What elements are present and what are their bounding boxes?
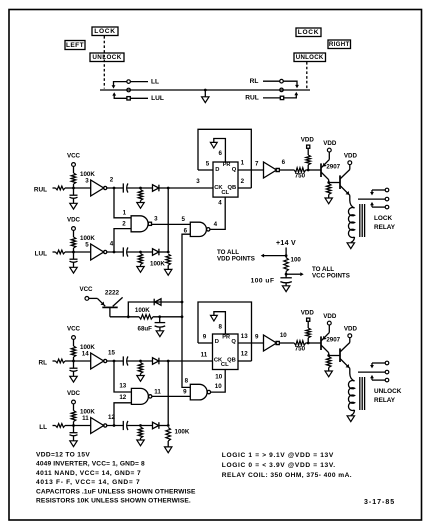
lock relay label bbox=[374, 215, 396, 231]
junction (RUL input) bbox=[72, 187, 75, 190]
ground (lock coil) bbox=[347, 243, 354, 249]
wire (coil to ground lock) bbox=[351, 237, 355, 243]
flip-flop U1 4013 body bbox=[213, 162, 238, 197]
power VDC (LUL pull-up) bbox=[67, 217, 81, 231]
svg-text:6: 6 bbox=[218, 150, 222, 157]
wire (RUL to inverter) bbox=[74, 187, 91, 189]
NAND gate 4011 (pins 13,12 -> 11) bbox=[131, 388, 152, 404]
svg-text:3-17-85: 3-17-85 bbox=[364, 499, 395, 506]
svg-text:9: 9 bbox=[255, 334, 259, 341]
svg-text:2: 2 bbox=[122, 221, 126, 228]
svg-text:2: 2 bbox=[110, 177, 114, 184]
relay arm arrow top (unlock) bbox=[370, 363, 374, 368]
capacitor 100uF (power) bbox=[280, 278, 291, 286]
wire (emitter to coil unlock) bbox=[350, 368, 355, 381]
svg-text:6: 6 bbox=[282, 159, 286, 166]
inverter 4049 pins 5-4 (LUL) bbox=[91, 244, 107, 260]
relay coil (unlock) bbox=[348, 381, 354, 411]
transistor 2222 base bar bbox=[102, 306, 117, 308]
svg-text:D: D bbox=[215, 339, 219, 345]
value 68uF label bbox=[138, 326, 153, 333]
junction (VCC node) bbox=[285, 273, 288, 276]
pin 5 label (U1 D) bbox=[206, 161, 210, 168]
switch arm arrow (RUL) bbox=[284, 92, 299, 98]
wire (+14V down) bbox=[285, 248, 287, 258]
svg-text:CAPACITORS .1uF UNLESS SHOWN O: CAPACITORS .1uF UNLESS SHOWN OTHERWISE bbox=[36, 488, 196, 495]
svg-text:UNLOCK: UNLOCK bbox=[374, 388, 402, 395]
wire (diode out LUL) bbox=[159, 251, 168, 253]
svg-text:VDD: VDD bbox=[323, 140, 337, 147]
resistor to ground (lock base bleed) bbox=[325, 184, 332, 204]
wire (diode out LL) bbox=[159, 425, 168, 427]
capacitor .1uF series (LL) bbox=[123, 421, 128, 430]
U2 label D bbox=[215, 339, 219, 345]
svg-text:VDD POINTS: VDD POINTS bbox=[217, 255, 255, 262]
pin 13 label bbox=[119, 383, 126, 390]
switch contact RUL bbox=[263, 96, 284, 99]
node LUL input label bbox=[35, 251, 48, 258]
power VDC (LL pull-up) bbox=[67, 390, 81, 404]
svg-text:VDD: VDD bbox=[344, 153, 358, 160]
value 100K (LUL) bbox=[80, 235, 95, 242]
resistor 100K (POR) bbox=[139, 315, 153, 320]
U2 label CL bbox=[221, 362, 229, 368]
wire (emitter to VDD unlock) bbox=[328, 325, 330, 333]
value 750 (unlock) bbox=[295, 346, 306, 353]
svg-text:RUL: RUL bbox=[245, 94, 259, 101]
pin 10 label (NAND out) bbox=[215, 383, 222, 390]
relay contact top (lock) bbox=[372, 188, 389, 192]
junction (inverter 4 output) bbox=[113, 251, 116, 254]
transistor NPN emitter (unlock) bbox=[340, 359, 350, 369]
resistor 100K (LUL pull-up) bbox=[71, 237, 76, 252]
node RL input label bbox=[38, 360, 47, 367]
wire U2 PR to ground bbox=[211, 312, 226, 334]
resistor to ground (LL pulse) bbox=[137, 427, 144, 446]
svg-text:LOGIC 0 = < 3.9V @VDD = 13V.: LOGIC 0 = < 3.9V @VDD = 13V. bbox=[222, 462, 336, 469]
wire (cap to diode LUL) bbox=[127, 251, 152, 253]
dashed mechanical link (right switch) bbox=[306, 62, 308, 89]
date label bbox=[364, 499, 395, 506]
svg-text:5: 5 bbox=[181, 216, 185, 223]
svg-text:RIGHT: RIGHT bbox=[329, 41, 350, 48]
wire (2222 base down) bbox=[109, 307, 111, 316]
capacitor .1uF series (RL) bbox=[123, 356, 128, 365]
svg-text:2: 2 bbox=[241, 178, 245, 185]
switch contact LUL bbox=[127, 97, 148, 100]
svg-text:VCC POINTS: VCC POINTS bbox=[312, 273, 350, 280]
wire (inverter 2 output) bbox=[107, 187, 123, 189]
pin 14 label bbox=[82, 351, 89, 358]
svg-text:LOGIC 1 = > 9.1V @VDD = 13V: LOGIC 1 = > 9.1V @VDD = 13V bbox=[222, 452, 334, 459]
capacitor .1uF to ground (LUL input) bbox=[70, 252, 78, 273]
junction (POR bus diode) bbox=[181, 301, 184, 304]
wire NAND4out to FF1 CL bbox=[210, 197, 225, 229]
note logic line 1 bbox=[222, 452, 334, 459]
resistor pull-up to VDD (unlock) bbox=[306, 321, 311, 343]
svg-text:LEFT: LEFT bbox=[66, 42, 84, 49]
svg-text:CL: CL bbox=[221, 362, 229, 368]
svg-text:LOCK: LOCK bbox=[94, 28, 115, 35]
transistor 2222 emitter bbox=[97, 298, 105, 306]
relay coil (lock) bbox=[348, 208, 354, 238]
unlock relay label bbox=[374, 388, 402, 404]
junction (inverter 15 output) bbox=[113, 360, 116, 363]
svg-text:13: 13 bbox=[119, 383, 126, 390]
note logic line 3 bbox=[222, 472, 352, 479]
value 750 (lock) bbox=[295, 173, 306, 180]
wire inverter4 to NAND pin2 bbox=[114, 229, 131, 252]
svg-text:10: 10 bbox=[215, 373, 222, 380]
value 100K (POR) bbox=[135, 307, 150, 314]
svg-text:+14 V: +14 V bbox=[276, 240, 296, 247]
node RUL input label bbox=[34, 187, 47, 194]
ground (unlock coil) bbox=[347, 416, 354, 422]
relay arm arrow top (lock) bbox=[370, 190, 374, 195]
NAND gate 4011 (pins 1,2 -> 3) bbox=[131, 216, 151, 232]
svg-text:4011 NAND, VCC= 14, GND= 7: 4011 NAND, VCC= 14, GND= 7 bbox=[36, 470, 141, 477]
pin 2 label bbox=[110, 177, 114, 184]
svg-text:PR: PR bbox=[222, 334, 230, 340]
value 100K (LL) bbox=[80, 408, 95, 415]
power VDD (pull-up lock) bbox=[301, 137, 315, 149]
pin 6 label bbox=[184, 228, 188, 235]
relay core (unlock) bbox=[360, 377, 365, 410]
svg-text:2907: 2907 bbox=[326, 163, 340, 170]
wire ground bus bbox=[100, 89, 310, 91]
note logic line 2 bbox=[222, 462, 336, 469]
label box UNLOCK (right door) bbox=[294, 53, 326, 62]
inverter 4049 pins 11-12 (LL) bbox=[91, 418, 107, 434]
node +14 V label bbox=[276, 240, 296, 247]
label box LOCK (right door) bbox=[296, 28, 321, 37]
resistor 100K (LL pull-up) bbox=[71, 411, 76, 426]
svg-text:UNLOCK: UNLOCK bbox=[92, 54, 121, 61]
svg-text:VDD=12 TO 15V: VDD=12 TO 15V bbox=[36, 452, 90, 459]
svg-text:LUL: LUL bbox=[151, 95, 164, 102]
svg-text:100 uF: 100 uF bbox=[251, 277, 275, 284]
wire (inv out unlock) bbox=[280, 342, 295, 344]
pin 1 label (U1 Q) bbox=[241, 160, 245, 167]
value 100K (RUL) bbox=[80, 171, 95, 178]
resistor to ground (RUL pulse) bbox=[137, 190, 144, 209]
wire U2 QB to D feedback bbox=[198, 302, 252, 361]
wire (to NPN base lock) bbox=[329, 182, 340, 184]
junction (inverter 2 output) bbox=[113, 187, 116, 190]
wire U1 QB to D feedback bbox=[198, 129, 251, 188]
node TO ALL VDD POINTS label bbox=[217, 249, 255, 262]
wire U1 D input bbox=[198, 169, 213, 171]
relay pole contact (unlock) bbox=[358, 370, 389, 374]
relay contact bottom (unlock) bbox=[372, 378, 389, 382]
relay arm arrow bottom (lock) bbox=[370, 202, 374, 207]
ground (68uF) bbox=[156, 331, 163, 337]
wire (cap to diode RUL) bbox=[127, 187, 152, 189]
svg-text:10: 10 bbox=[280, 332, 287, 339]
pin 12 label bbox=[119, 394, 126, 401]
pin 4 label (NAND out) bbox=[214, 221, 218, 228]
note line 3 bbox=[36, 470, 141, 477]
switch arm arrow (LL) bbox=[112, 82, 127, 89]
label box LEFT bbox=[65, 41, 85, 50]
junction (cap out RL) bbox=[139, 360, 142, 363]
svg-text:VDC: VDC bbox=[67, 390, 81, 397]
pin 3 label bbox=[85, 178, 89, 185]
wire (inverter 15 output) bbox=[107, 360, 123, 362]
pin 3 label (U1 CK) bbox=[196, 178, 200, 185]
power VDD (2907 emitter unlock) bbox=[323, 313, 337, 325]
svg-text:13: 13 bbox=[241, 333, 248, 340]
pin 9 label bbox=[255, 334, 259, 341]
wire U2 D input bbox=[198, 342, 213, 344]
pin 5 label bbox=[181, 216, 185, 223]
U1 label PR bbox=[223, 162, 231, 168]
junction (collector node lock) bbox=[327, 181, 330, 184]
value 100 uF label bbox=[251, 277, 275, 284]
value 100K (unlock clock pulldown) bbox=[175, 429, 190, 436]
U2 label CK bbox=[214, 357, 223, 363]
note line 6 bbox=[36, 498, 191, 505]
wire (750 to base lock) bbox=[306, 169, 321, 171]
label box UNLOCK (left door) bbox=[90, 53, 124, 62]
wire (LL pull-up) bbox=[73, 404, 75, 411]
value 2222 label bbox=[105, 290, 120, 297]
transistor NPN base bar (lock) bbox=[339, 175, 341, 189]
svg-text:750: 750 bbox=[295, 173, 306, 180]
svg-text:100K: 100K bbox=[135, 307, 150, 314]
resistor 100K (lock clock pulldown) bbox=[165, 254, 172, 275]
capacitor .1uF to ground (RUL input) bbox=[70, 188, 78, 209]
svg-text:10: 10 bbox=[215, 383, 222, 390]
node TO ALL VCC POINTS label bbox=[312, 266, 350, 280]
power VCC (RUL pull-up) bbox=[67, 153, 81, 167]
transistor NPN collector (lock) bbox=[340, 165, 350, 179]
wire (emitter to VDD lock) bbox=[328, 152, 330, 160]
capacitor .1uF to ground (LL input) bbox=[70, 426, 78, 447]
power VDD (pull-up unlock) bbox=[301, 310, 315, 322]
switch arm arrow (RL) bbox=[283, 81, 299, 88]
U1 label CK bbox=[214, 185, 223, 191]
wire (RUL pull-up) bbox=[73, 166, 75, 173]
value 100K (lock clock pulldown) bbox=[150, 261, 165, 268]
transistor 2907 base bar (unlock) bbox=[320, 336, 322, 350]
wire NAND3out to NAND pin5 bbox=[152, 223, 191, 225]
junction (+14V VDD node) bbox=[285, 254, 288, 257]
pin 9 label (U2 D) bbox=[203, 333, 207, 340]
svg-text:4: 4 bbox=[110, 241, 114, 248]
junction (base node unlock) bbox=[307, 342, 310, 345]
power VDD (NPN collector lock) bbox=[344, 153, 358, 165]
resistor 100K (RUL pull-up) bbox=[71, 173, 76, 188]
switch pole (left) bbox=[127, 88, 131, 92]
svg-text:4: 4 bbox=[214, 221, 218, 228]
note line 5 bbox=[36, 488, 196, 495]
svg-text:RELAY: RELAY bbox=[374, 224, 396, 231]
svg-text:RL: RL bbox=[250, 78, 259, 85]
resistor to ground (unlock base bleed) bbox=[325, 357, 332, 377]
power VDD (2907 emitter lock) bbox=[323, 140, 337, 152]
wire to VCC points arrow bbox=[286, 272, 304, 276]
svg-text:8: 8 bbox=[218, 324, 222, 331]
transistor 2907 emitter (lock) bbox=[321, 160, 329, 168]
label box RIGHT bbox=[328, 40, 351, 49]
svg-text:100K: 100K bbox=[150, 261, 165, 268]
transistor 2907 emitter (unlock) bbox=[321, 333, 329, 341]
diode (POR) bbox=[154, 299, 161, 306]
junction (diode out RUL) bbox=[167, 187, 170, 190]
transistor 2907 collector (lock) bbox=[321, 172, 329, 183]
resistor (series input RUL) bbox=[53, 186, 74, 190]
pin 4 label bbox=[110, 241, 114, 248]
svg-text:CL: CL bbox=[221, 190, 229, 196]
relay contact bottom (lock) bbox=[372, 205, 389, 209]
capacitor .1uF to ground (RL input) bbox=[70, 361, 78, 382]
svg-text:9: 9 bbox=[203, 333, 207, 340]
junction (POR left) bbox=[127, 315, 130, 318]
relay arm arrow bottom (unlock) bbox=[370, 375, 374, 380]
wire (RL pull-up) bbox=[73, 339, 75, 346]
pin 3 label bbox=[154, 216, 158, 223]
pin 6 label bbox=[282, 159, 286, 166]
wire U1 Q output bbox=[238, 169, 264, 171]
pin 7 label bbox=[255, 161, 259, 168]
resistor 750 (lock) bbox=[294, 168, 305, 173]
capacitor 68uF (POR) bbox=[155, 317, 166, 331]
node LL input label bbox=[39, 424, 47, 431]
svg-text:VDC: VDC bbox=[67, 217, 81, 224]
svg-text:D: D bbox=[215, 167, 219, 173]
svg-text:14: 14 bbox=[82, 351, 89, 358]
wire (LL to inverter) bbox=[74, 425, 91, 427]
wire (inverter 12 output) bbox=[107, 425, 123, 427]
pin 5 label bbox=[85, 242, 89, 249]
resistor to ground (LUL pulse) bbox=[137, 254, 144, 273]
junction (inverter 12 output) bbox=[113, 424, 116, 427]
svg-text:11: 11 bbox=[82, 415, 89, 422]
resistor (series input LL) bbox=[53, 424, 74, 428]
svg-text:8: 8 bbox=[185, 378, 189, 385]
wire (cap to diode LL) bbox=[127, 425, 152, 427]
relay core (lock) bbox=[360, 204, 365, 237]
wire U1 QB output bbox=[238, 187, 251, 189]
switch contact LL bbox=[127, 80, 148, 84]
transistor 2907 base bar (lock) bbox=[320, 163, 322, 177]
pin 4 label (U1 CL) bbox=[218, 199, 222, 206]
wire (base to 100K) bbox=[110, 316, 139, 318]
junction (diode out LUL) bbox=[167, 251, 170, 254]
svg-text:4049 INVERTER, VCC= 1, GND= 8: 4049 INVERTER, VCC= 1, GND= 8 bbox=[36, 461, 145, 468]
svg-text:2222: 2222 bbox=[105, 290, 120, 297]
wire (emitter to coil lock) bbox=[350, 195, 355, 208]
svg-text:VCC: VCC bbox=[67, 153, 81, 160]
U1 label D bbox=[215, 167, 219, 173]
junction (POR bus res) bbox=[181, 315, 184, 318]
wire inverter2 to NAND pin1 bbox=[114, 188, 131, 218]
junction (base node lock) bbox=[307, 169, 310, 172]
wire (100K to cap) bbox=[153, 316, 182, 318]
svg-text:UNLOCK: UNLOCK bbox=[296, 54, 324, 61]
wire (POR diode branch) bbox=[128, 302, 182, 317]
wire inverter15 to NAND pin13 bbox=[114, 361, 131, 392]
wire (LUL pull-up) bbox=[73, 230, 75, 237]
resistor (series input RL) bbox=[53, 359, 74, 363]
svg-text:RL: RL bbox=[38, 360, 47, 367]
wire NAND11out to NAND pin9 bbox=[152, 395, 190, 397]
wire U1 PR to ground bbox=[210, 139, 225, 163]
node LUL label bbox=[151, 95, 164, 102]
inverter 4049 pins 14-15 (RL) bbox=[91, 353, 107, 369]
relay contact top (unlock) bbox=[372, 361, 389, 365]
svg-text:750: 750 bbox=[295, 346, 306, 353]
pin 9 label bbox=[183, 389, 187, 396]
diode (RUL pulse) bbox=[153, 185, 159, 192]
note line 2 bbox=[36, 461, 145, 468]
junction on ground bus bbox=[204, 89, 207, 92]
wire (coil to ground unlock) bbox=[351, 410, 355, 416]
wire NAND10out to FF2 CL bbox=[211, 370, 225, 393]
pin 8 label (U2 PR) bbox=[218, 324, 222, 331]
pin 13 label (U2 Q) bbox=[241, 333, 248, 340]
inverter 4049 pins 7-6 (lock driver) bbox=[264, 162, 280, 178]
power VCC (POR) bbox=[79, 286, 93, 301]
svg-text:VDD: VDD bbox=[301, 137, 315, 144]
U2 label PR bbox=[222, 334, 230, 340]
pin 6 label (U1 PR) bbox=[218, 150, 222, 157]
svg-text:12: 12 bbox=[241, 350, 248, 357]
svg-text:LL: LL bbox=[39, 424, 47, 431]
capacitor .1uF series (RUL) bbox=[123, 183, 128, 192]
pin 10 label bbox=[280, 332, 287, 339]
svg-text:RELAY COIL: 350 OHM, 375- 400: RELAY COIL: 350 OHM, 375- 400 mA. bbox=[222, 472, 352, 479]
svg-text:3: 3 bbox=[85, 178, 89, 185]
pin 2 label (U1 QB) bbox=[241, 178, 245, 185]
svg-text:9: 9 bbox=[183, 389, 187, 396]
svg-text:LOCK: LOCK bbox=[374, 215, 392, 222]
wire (to NPN base unlock) bbox=[329, 355, 340, 357]
node RL label bbox=[250, 78, 259, 85]
wire (750 to base unlock) bbox=[306, 342, 321, 344]
junction (POR cap node) bbox=[158, 315, 161, 318]
svg-text:VCC: VCC bbox=[79, 286, 93, 293]
svg-text:1: 1 bbox=[241, 160, 245, 167]
wire (res to cap) bbox=[285, 271, 287, 277]
svg-text:3: 3 bbox=[154, 216, 158, 223]
resistor 750 (unlock) bbox=[294, 341, 305, 346]
svg-text:LUL: LUL bbox=[35, 251, 48, 258]
switch contact RL bbox=[263, 79, 283, 83]
junction (collector node unlock) bbox=[327, 354, 330, 357]
svg-text:Q: Q bbox=[232, 167, 237, 173]
svg-text:15: 15 bbox=[108, 350, 115, 357]
junction (LUL input) bbox=[72, 251, 75, 254]
value 100 label bbox=[291, 256, 302, 263]
junction (cap out LUL) bbox=[139, 251, 142, 254]
svg-text:PR: PR bbox=[223, 162, 231, 168]
svg-text:VDD: VDD bbox=[301, 310, 315, 317]
diode (LL pulse) bbox=[153, 422, 159, 429]
svg-text:11: 11 bbox=[201, 351, 208, 358]
junction (diode out LL) bbox=[167, 424, 170, 427]
wire (inv out lock) bbox=[280, 169, 295, 171]
note line 4 bbox=[36, 479, 140, 486]
wire CK line to FF2 pin 11 bbox=[168, 360, 212, 362]
resistor (series input LUL) bbox=[53, 250, 74, 254]
svg-text:LOCK: LOCK bbox=[298, 29, 319, 36]
svg-text:4013 F- F, VCC= 14, GND= 7: 4013 F- F, VCC= 14, GND= 7 bbox=[36, 479, 140, 486]
junction (LL input) bbox=[72, 424, 75, 427]
pin 11 label (NAND out) bbox=[154, 388, 161, 395]
switch arm arrow (LUL) bbox=[112, 92, 127, 98]
